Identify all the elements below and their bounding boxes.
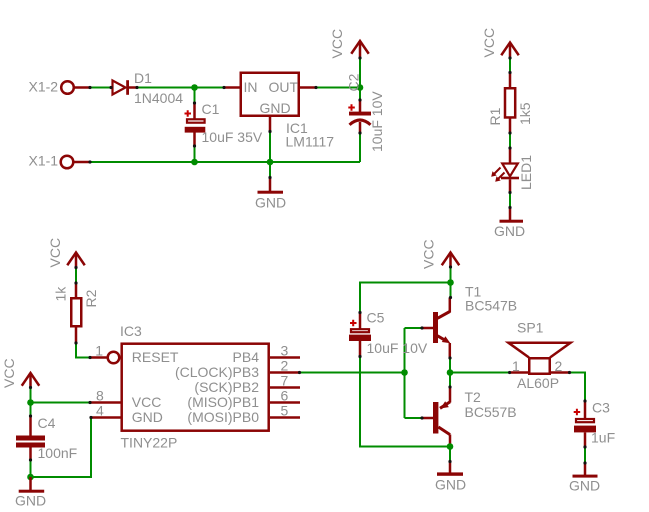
svg-text:6: 6 bbox=[281, 388, 289, 404]
wire C1 bottom bbox=[194, 146, 196, 162]
supply symbol VCC above T1 bbox=[421, 239, 460, 269]
svg-text:GND: GND bbox=[132, 409, 163, 425]
wire R1 to LED1 bbox=[509, 133, 511, 148]
wire R2 to RESET pin bbox=[76, 343, 90, 358]
supply symbol VCC right column bbox=[481, 28, 519, 58]
node junction C1 bottom bbox=[191, 159, 198, 166]
supply symbol VCC top bbox=[329, 29, 369, 59]
capacitor C1 10uF 35V bbox=[185, 101, 263, 146]
pin 3 PB4 bbox=[233, 343, 300, 365]
svg-text:2: 2 bbox=[555, 358, 563, 374]
node junction at C1 top rail bbox=[191, 84, 198, 91]
svg-text:C2: C2 bbox=[346, 73, 362, 91]
wire C3 to GND bbox=[584, 447, 586, 463]
ground symbol under LED1 bbox=[494, 208, 525, 240]
svg-text:5: 5 bbox=[281, 403, 289, 419]
svg-text:10uF 10V: 10uF 10V bbox=[369, 91, 385, 152]
svg-text:R2: R2 bbox=[83, 289, 99, 307]
svg-text:1k: 1k bbox=[53, 286, 69, 302]
ground symbol under T2 bbox=[435, 462, 466, 493]
svg-text:(MOSI)PB0: (MOSI)PB0 bbox=[187, 409, 259, 425]
svg-text:8: 8 bbox=[96, 388, 104, 404]
wire diode to IC1 IN with junction bbox=[137, 87, 224, 89]
svg-text:VCC: VCC bbox=[132, 394, 162, 410]
wire VCC node to pin 8 bbox=[31, 402, 91, 404]
svg-text:1k5: 1k5 bbox=[517, 102, 533, 125]
wire IC1 OUT to VCC rail bbox=[316, 87, 360, 89]
wire VCC into C4 node bbox=[30, 388, 32, 417]
svg-text:GND: GND bbox=[435, 477, 466, 493]
supply symbol VCC above C4 bbox=[1, 358, 39, 388]
svg-text:7: 7 bbox=[281, 373, 289, 389]
svg-text:GND: GND bbox=[260, 100, 291, 116]
svg-text:GND: GND bbox=[255, 195, 286, 211]
svg-text:3: 3 bbox=[281, 343, 289, 359]
pin 6 PB1 bbox=[187, 388, 300, 410]
svg-text:X1-2: X1-2 bbox=[29, 79, 59, 95]
pin 8 VCC bbox=[90, 388, 161, 410]
ground symbol under C3 bbox=[569, 463, 600, 494]
wire speaker pin 2 to C3 bbox=[570, 373, 586, 402]
svg-text:100nF: 100nF bbox=[38, 445, 78, 461]
wire VCC to R2 bbox=[75, 268, 77, 284]
svg-text:C4: C4 bbox=[38, 415, 56, 431]
LED LED1 bbox=[491, 148, 534, 193]
node junction VCC C5 bbox=[447, 279, 454, 286]
svg-text:BC557B: BC557B bbox=[465, 404, 517, 420]
resistor R2 1k bbox=[53, 283, 100, 343]
pin 4 GND bbox=[91, 403, 163, 425]
svg-text:1uF: 1uF bbox=[591, 430, 615, 446]
node junction IC1 GND bbox=[267, 159, 274, 166]
svg-text:1N4004: 1N4004 bbox=[134, 90, 183, 106]
connector pad X1-2 bbox=[29, 79, 91, 95]
svg-text:4: 4 bbox=[96, 403, 104, 419]
wire C1 drop bbox=[194, 88, 196, 104]
pin 7 PB2 bbox=[194, 373, 300, 395]
svg-text:IC3: IC3 bbox=[120, 323, 142, 339]
svg-text:LED1: LED1 bbox=[518, 155, 534, 190]
svg-text:IN: IN bbox=[244, 79, 258, 95]
wire VCC to R1 bbox=[509, 58, 511, 73]
wire T1 base bbox=[405, 327, 423, 329]
wire net X1-2 to diode bbox=[90, 87, 111, 89]
svg-text:10uF 10V: 10uF 10V bbox=[367, 340, 428, 356]
svg-text:(SCK)PB2: (SCK)PB2 bbox=[194, 379, 259, 395]
svg-text:X1-1: X1-1 bbox=[29, 153, 59, 169]
wire GND node to pin 4 bbox=[31, 418, 92, 478]
svg-text:C3: C3 bbox=[592, 399, 610, 415]
svg-text:T2: T2 bbox=[465, 389, 482, 405]
svg-text:TINY22P: TINY22P bbox=[121, 435, 178, 451]
ground symbol under IC1 bbox=[255, 178, 286, 211]
wire C2 bottom bbox=[359, 133, 361, 162]
IC1 LM1117 regulator box bbox=[224, 73, 334, 150]
node junction GND C4 bbox=[27, 474, 34, 481]
svg-text:VCC: VCC bbox=[481, 28, 497, 58]
pin 5 PB0 bbox=[187, 403, 300, 425]
svg-text:OUT: OUT bbox=[268, 79, 298, 95]
svg-text:VCC: VCC bbox=[47, 238, 63, 268]
wire to GND below T2 bbox=[449, 447, 451, 462]
wire T1 emitter to speaker node bbox=[449, 358, 451, 387]
svg-text:GND: GND bbox=[569, 478, 600, 494]
svg-text:AL60P: AL60P bbox=[517, 375, 559, 391]
svg-text:RESET: RESET bbox=[132, 349, 179, 365]
capacitor C3 1uF bbox=[574, 399, 615, 447]
svg-text:1: 1 bbox=[512, 358, 520, 374]
svg-text:C1: C1 bbox=[202, 101, 220, 117]
node junction bases bbox=[401, 369, 408, 376]
pin 2 PB3 bbox=[175, 358, 300, 380]
svg-text:(MISO)PB1: (MISO)PB1 bbox=[187, 394, 259, 410]
svg-text:10uF 35V: 10uF 35V bbox=[202, 129, 263, 145]
wire LED1 to GND bbox=[509, 193, 511, 208]
capacitor C2 10uF 10V bbox=[346, 73, 386, 152]
node junction emitters bbox=[447, 369, 454, 376]
node junction at C2 top bbox=[357, 84, 364, 91]
svg-text:VCC: VCC bbox=[421, 239, 437, 269]
svg-text:2: 2 bbox=[281, 358, 289, 374]
pin end dots bbox=[29, 56, 587, 464]
svg-text:BC547B: BC547B bbox=[465, 298, 517, 314]
svg-text:LM1117: LM1117 bbox=[286, 134, 335, 150]
svg-text:PB4: PB4 bbox=[233, 349, 260, 365]
resistor R1 1k5 bbox=[487, 73, 533, 134]
ground symbol bottom left bbox=[15, 477, 46, 508]
supply symbol VCC above R2 bbox=[47, 238, 85, 268]
wire base vertical link bbox=[404, 328, 406, 418]
wire emitter node to speaker bbox=[450, 372, 510, 374]
svg-text:(CLOCK)PB3: (CLOCK)PB3 bbox=[175, 364, 259, 380]
wire pin 2 to base node bbox=[300, 372, 405, 374]
svg-text:SP1: SP1 bbox=[517, 320, 544, 336]
speaker SP1 AL60P bbox=[509, 320, 571, 391]
connector pad X1-1 bbox=[29, 153, 91, 169]
pin 1 RESET with inverting circle bbox=[90, 343, 179, 365]
node junction T2 collector GND bbox=[447, 443, 454, 450]
IC3 TINY22P box bbox=[120, 323, 269, 450]
transistor T2 BC557B bbox=[422, 387, 517, 447]
transistor T1 BC547B bbox=[422, 284, 517, 359]
svg-text:GND: GND bbox=[15, 492, 46, 508]
svg-text:1: 1 bbox=[95, 343, 103, 359]
wire T2 base bbox=[405, 417, 423, 419]
capacitor C4 100nF bbox=[16, 415, 77, 461]
svg-text:GND: GND bbox=[494, 223, 525, 239]
capacitor C5 10uF 10V bbox=[349, 310, 428, 357]
svg-text:C5: C5 bbox=[367, 310, 385, 326]
wire VCC to T1 collector bbox=[450, 267, 452, 298]
wire C4 bottom to GND node bbox=[30, 460, 32, 477]
svg-text:VCC: VCC bbox=[1, 358, 17, 388]
wire VCC node to C5 top bbox=[360, 283, 451, 313]
wire VCC column bbox=[359, 58, 361, 100]
node junction VCC C4 bbox=[27, 399, 34, 406]
wire IC1 GND pin to rail and down bbox=[269, 132, 271, 178]
svg-text:VCC: VCC bbox=[329, 29, 345, 59]
svg-text:D1: D1 bbox=[134, 70, 152, 86]
diode D1 1N4004 bbox=[113, 70, 184, 106]
wire C5 bottom to GND node bbox=[360, 357, 450, 447]
wire bottom rail X1-1 to C2 bbox=[90, 161, 360, 163]
svg-text:R1: R1 bbox=[487, 107, 503, 125]
